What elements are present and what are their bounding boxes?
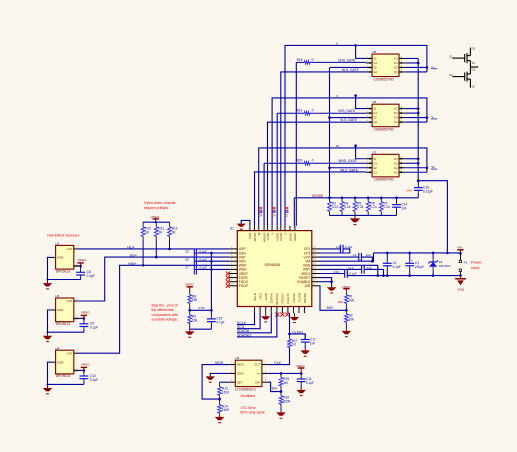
svg-text:MOD: MOD [237, 363, 244, 367]
wire net WLS gate [255, 172, 367, 226]
wire net VCP [320, 256, 359, 258]
wire U5 D2a to phase [405, 66, 427, 68]
svg-text:LOCKn: LOCKn [292, 293, 296, 303]
svg-text:0.1µF: 0.1µF [306, 381, 314, 385]
svg-text:D1: D1 [472, 46, 476, 50]
wire net SENSE rail [294, 197, 418, 199]
resistor R2 [345, 310, 356, 328]
svg-text:GND: GND [458, 287, 466, 291]
wire PAD to ground [241, 220, 250, 226]
svg-text:0.1µF: 0.1µF [90, 326, 98, 330]
resistor R4 [340, 198, 351, 216]
svg-text:S2: S2 [373, 166, 377, 170]
svg-text:0.1µF: 0.1µF [199, 257, 207, 261]
resistor R9 [188, 310, 199, 329]
svg-text:U8: U8 [235, 356, 239, 360]
junction U4 vcc node [83, 369, 86, 372]
svg-text:Power: Power [471, 260, 482, 264]
svg-text:DIR: DIR [327, 306, 334, 310]
power VREG dir divider [342, 285, 351, 291]
junction sense r4 [341, 197, 344, 200]
svg-text:S1: S1 [373, 157, 377, 161]
junction sense r7 [380, 197, 383, 200]
svg-text:0.1µF: 0.1µF [87, 274, 95, 278]
junction sense r3 [328, 197, 331, 200]
svg-text:U5: U5 [373, 50, 377, 54]
svg-text:C3: C3 [353, 253, 357, 257]
junction U4 gnd corner [47, 383, 49, 385]
junction clkin node [288, 333, 291, 336]
U1 right pins CP1..DIR [297, 246, 319, 288]
svg-text:0.24: 0.24 [384, 205, 390, 209]
svg-text:VLSO: VLSO [266, 232, 270, 241]
ground ground U4 [43, 384, 52, 393]
wire net SDATAI [237, 313, 271, 333]
svg-text:CLK: CLK [274, 361, 281, 365]
wire U7 D1b to VM bus [405, 162, 418, 164]
svg-text:DRV5013: DRV5013 [56, 374, 70, 378]
resistor R14 [218, 399, 230, 415]
svg-text:D2: D2 [472, 68, 476, 72]
junction phase U S1 tap [354, 44, 357, 47]
power VREG pullups [151, 215, 160, 222]
junction osc v+ vreg [300, 372, 303, 375]
svg-text:BRAKE: BRAKE [303, 293, 307, 303]
wire net DIV [269, 382, 281, 391]
svg-text:require pullups.: require pullups. [144, 206, 169, 210]
svg-text:C5: C5 [185, 249, 189, 253]
svg-text:0.0: 0.0 [292, 343, 297, 347]
resistor R8 [188, 291, 199, 310]
wire U6 S2 to sense bus [330, 117, 366, 119]
capacitor C7 input filter labels [185, 265, 207, 269]
svg-text:V+: V+ [257, 372, 261, 376]
svg-text:U: U [283, 233, 287, 235]
svg-text:0: 0 [312, 109, 314, 113]
svg-text:HV+: HV+ [130, 254, 137, 258]
svg-text:SDATAI: SDATAI [270, 293, 274, 304]
power VM supply [457, 245, 464, 253]
capacitor C1 [405, 253, 424, 276]
svg-text:CLKIN: CLKIN [297, 293, 301, 302]
power VREG bias [185, 283, 194, 291]
svg-text:Bias the - pins of: Bias the - pins of [152, 304, 178, 308]
svg-text:D2: D2 [394, 120, 398, 124]
wire net VM [320, 253, 374, 261]
svg-text:0: 0 [312, 159, 314, 163]
wire net SCS [237, 313, 260, 329]
svg-text:R18: R18 [297, 58, 303, 62]
hall sensor U4 DRV5013 [49, 346, 79, 378]
wire net VINT [320, 268, 362, 270]
power VREG U4 [81, 363, 91, 371]
ground ground R16 [276, 410, 285, 418]
svg-text:VREG: VREG [81, 311, 90, 315]
junction VSN bias [210, 260, 213, 263]
resistor R5 [353, 198, 364, 216]
svg-text:10K: 10K [349, 298, 356, 302]
wire net CLK [269, 348, 290, 365]
svg-text:FAULTn: FAULTn [286, 293, 290, 304]
svg-text:S2: S2 [373, 66, 377, 70]
junction VM bus U7 [417, 162, 420, 165]
svg-text:Input: Input [471, 266, 480, 270]
svg-text:U: U [336, 42, 338, 46]
wire net CP2 [320, 249, 350, 253]
svg-text:15K: 15K [192, 298, 199, 302]
svg-text:D2: D2 [394, 166, 398, 170]
svg-text:50% duty cycle: 50% duty cycle [240, 411, 265, 415]
svg-text:0: 0 [312, 58, 314, 62]
svg-text:U2: U2 [55, 242, 59, 246]
svg-text:OUT: OUT [66, 299, 72, 303]
svg-text:GND: GND [57, 308, 63, 312]
svg-text:HU+: HU+ [127, 245, 134, 249]
wire bias bus to minus inputs [210, 253, 212, 310]
junction VM rail end [459, 252, 462, 255]
junction S bus W tap [328, 166, 331, 169]
capacitor C11 [297, 373, 314, 388]
resistor R12 [168, 222, 178, 249]
resistor R1 [345, 291, 356, 310]
svg-text:WLS_GATE: WLS_GATE [340, 168, 359, 172]
wire U5 D2b to phase [405, 71, 427, 73]
ground ground U3 [43, 332, 52, 341]
svg-text:0.1µF: 0.1µF [349, 272, 357, 276]
junction sense c14 [395, 197, 398, 200]
svg-text:W: W [257, 232, 261, 235]
wire U5 S1 to phase U [356, 45, 366, 58]
svg-text:S1: S1 [373, 107, 377, 111]
svg-text:SCLK: SCLK [253, 293, 257, 301]
power VREG U2 [77, 258, 87, 266]
wire U4 GND to ground [48, 362, 84, 384]
net label V riser [272, 207, 276, 217]
wire net VSP / HV+ [78, 257, 229, 301]
svg-text:0.1µF: 0.1µF [199, 249, 207, 253]
transistor pair U5 CSD88537ND [366, 50, 406, 81]
junction gnd rail c2 [386, 274, 389, 277]
wire C3 to VM [361, 257, 372, 261]
junction VM bus block3 upper [417, 157, 420, 160]
capacitor C4 charge pump [336, 245, 353, 253]
no-connect U1 left pin 8 [226, 276, 230, 280]
svg-text:4.7µF: 4.7µF [216, 321, 224, 325]
wire bias 2.5V node [190, 309, 212, 311]
ground ground oscillator [206, 376, 215, 382]
transistor Q2 legend lower FET [449, 67, 478, 88]
note frequency [240, 406, 265, 415]
svg-text:U4: U4 [55, 346, 59, 350]
junction R12 to HU+ [168, 248, 171, 251]
wire net WSN [194, 268, 229, 270]
junction VREG stem [155, 221, 157, 223]
junction bias node right [210, 309, 213, 312]
no-connect U1 bottom pin 6 [275, 313, 279, 317]
svg-text:D2: D2 [394, 66, 398, 70]
junction VM bus U6 [417, 112, 420, 115]
resistor R10 [141, 222, 151, 265]
svg-text:VREG: VREG [185, 283, 194, 287]
net label W riser [259, 207, 263, 217]
svg-text:HW+: HW+ [128, 262, 136, 266]
svg-text:Open-drain outputs: Open-drain outputs [144, 201, 176, 205]
svg-text:GND: GND [57, 256, 63, 260]
svg-text:VREG: VREG [342, 285, 351, 289]
wire U5 D1a to VM bus [405, 57, 418, 59]
svg-text:0.1µF: 0.1µF [199, 265, 207, 269]
wire osc gnd pin [210, 373, 228, 376]
wire U6 S1 to phase V [356, 96, 366, 109]
svg-text:DRV5013: DRV5013 [56, 269, 70, 273]
svg-text:D2: D2 [394, 170, 398, 174]
resistor R19 [277, 109, 366, 115]
wire U6 D2a to phase [405, 117, 427, 119]
wire net VSN [194, 260, 229, 262]
wire U7 D1a to VM bus [405, 158, 418, 160]
svg-text:SET: SET [237, 380, 243, 384]
junction phase node U5 [426, 66, 429, 69]
svg-text:CSD88537ND: CSD88537ND [374, 178, 395, 182]
wire net Vplus osc [269, 372, 302, 374]
svg-text:P1: P1 [464, 261, 468, 265]
svg-text:CSD88537ND: CSD88537ND [374, 77, 395, 81]
junction vm rail c2 [386, 252, 389, 255]
note power input [471, 260, 482, 270]
diode D1 TVS [428, 253, 451, 276]
svg-text:C13: C13 [334, 270, 340, 274]
junction U2 gnd corner [47, 279, 49, 281]
svg-text:G1: G1 [373, 111, 377, 115]
wire net MOD [202, 365, 229, 400]
resistor R20 [264, 159, 366, 165]
svg-text:1nF: 1nF [310, 341, 316, 345]
ground ground C17 [301, 349, 310, 357]
svg-text:SM6T33CA: SM6T33CA [439, 265, 451, 268]
ground ground bias divider [185, 329, 194, 337]
wire net VLS gate [268, 122, 367, 226]
svg-text:Hall Effect Sensors: Hall Effect Sensors [47, 234, 79, 238]
junction gnd rail end [459, 274, 462, 277]
wire net SDATAO [237, 313, 277, 337]
svg-text:S1: S1 [373, 57, 377, 61]
svg-text:GND: GND [237, 372, 243, 376]
svg-text:G1: G1 [373, 61, 377, 65]
svg-text:C12: C12 [348, 266, 354, 270]
junction osc v+ r15 [280, 372, 283, 375]
svg-text:0.22µF: 0.22µF [423, 189, 433, 193]
ground ground R14 [215, 415, 224, 422]
net label U riser [285, 207, 289, 217]
resistor R7 [379, 198, 390, 216]
junction vm rail d1 [432, 252, 435, 255]
capacitor C5 input filter [185, 249, 207, 275]
svg-text:15K: 15K [192, 318, 199, 322]
capacitor C8 [76, 266, 95, 280]
svg-text:U3: U3 [55, 294, 59, 298]
junction U3 gnd corner [47, 331, 49, 333]
wire U7 D2b to phase [405, 171, 427, 173]
svg-text:DIR: DIR [305, 284, 311, 288]
capacitor C17 [301, 334, 316, 349]
svg-text:WHS_GATE: WHS_GATE [338, 159, 357, 163]
U1 bottom pins SCLK..BRAKE [253, 292, 307, 313]
wire U6 D2b to phase [405, 121, 427, 123]
wire U5 D1b to VM bus [405, 62, 418, 64]
power VREG oscillator [296, 364, 305, 373]
wire net VREG row [320, 273, 345, 275]
svg-text:R20: R20 [297, 159, 303, 163]
wire net USP / HU+ [78, 248, 229, 250]
svg-text:820K: 820K [283, 399, 291, 403]
junction set divider node [218, 398, 221, 401]
svg-text:G1: G1 [373, 161, 377, 165]
svg-text:DRV5013: DRV5013 [56, 322, 70, 326]
svg-text:S1: S1 [472, 61, 476, 65]
junction VM bus U5 [417, 62, 420, 65]
ground ground U1 brake pin [290, 313, 299, 323]
svg-text:0.24: 0.24 [357, 205, 363, 209]
svg-text:OUT: OUT [254, 363, 260, 367]
note oscillator [240, 394, 256, 398]
svg-text:SENSE: SENSE [312, 194, 324, 198]
junction U2 vcc node [79, 265, 82, 268]
wire net DIR [320, 286, 347, 311]
junction phase node U7 [426, 166, 429, 169]
op-amp U1 DRV8308 motor controller body [230, 227, 312, 307]
svg-text:CSD88537ND: CSD88537ND [374, 127, 395, 131]
resistor R6 [366, 198, 377, 216]
svg-text:U1: U1 [230, 227, 234, 231]
wire U3 VCC to VREG [78, 317, 84, 319]
svg-text:1nF: 1nF [401, 206, 407, 210]
no-connect U1 bottom pin 8 [285, 313, 289, 317]
ground ground reset enable [327, 287, 336, 293]
junction C12 gnd tap [382, 274, 385, 277]
resistor R18 [296, 58, 366, 64]
svg-text:DIV: DIV [255, 380, 260, 384]
svg-text:a middle voltage.: a middle voltage. [152, 317, 178, 321]
ground ground C11 [297, 388, 306, 396]
wire U7 S2 to sense bus [330, 167, 366, 169]
capacitor C16 (DNI) [414, 181, 433, 198]
svg-text:10K: 10K [349, 317, 356, 321]
svg-text:GAIN: GAIN [264, 293, 268, 300]
svg-text:S2: S2 [373, 116, 377, 120]
wire net U phase top [285, 45, 427, 226]
svg-text:VREG: VREG [81, 363, 90, 367]
U1 left pins USP..FGDP [229, 246, 249, 288]
transistor Q1 legend upper FET [449, 46, 476, 67]
svg-text:OUT: OUT [66, 247, 72, 251]
svg-text:C4: C4 [336, 245, 340, 249]
no-connect U1 left pin 9 [226, 280, 230, 284]
svg-text:G2: G2 [373, 170, 377, 174]
wire U2 GND to ground [48, 257, 81, 279]
wire sense source bus [329, 67, 331, 197]
wire VM rail [374, 252, 461, 254]
transistor pair U6 CSD88537ND [366, 100, 406, 131]
svg-text:0.1µF: 0.1µF [90, 378, 98, 382]
svg-text:DIV: DIV [272, 386, 279, 390]
svg-text:the differential: the differential [152, 308, 174, 312]
wire clkin to c17 [290, 334, 306, 340]
wire net USN [194, 252, 229, 254]
svg-text:PAD: PAD [248, 232, 252, 239]
wire C12 to gnd rail [364, 269, 383, 275]
junction gnd rail d1 [432, 274, 435, 277]
wire U7 D2a to phase [405, 167, 427, 169]
junction phase node U6 [426, 116, 429, 119]
note bias comment [152, 304, 179, 322]
ground ground sense resistors [350, 215, 360, 224]
hall sensor U3 DRV5013 [49, 294, 79, 326]
wire net GND row [320, 265, 378, 275]
wire pullup top rail [143, 221, 169, 223]
wire R9 C15 bottom tie [190, 328, 212, 330]
wire net WSP / HW+ [78, 265, 229, 353]
junction C3 VM tap [371, 260, 374, 263]
capacitor C14 [392, 198, 407, 216]
ground ground U2 [43, 280, 52, 289]
svg-text:0.24: 0.24 [370, 205, 376, 209]
wire VM bus [418, 58, 447, 252]
capacitor C10 [80, 370, 99, 384]
ground ground U1 gain pin [261, 313, 270, 322]
no-connect U1 bottom pin 7 [280, 313, 284, 317]
wire power gnd rail [347, 275, 460, 277]
wire net VHS gate riser [276, 113, 278, 226]
svg-text:DRV8308: DRV8308 [265, 263, 281, 267]
resistor R13 [218, 382, 230, 399]
capacitor C3 VCP [353, 253, 371, 261]
svg-text:OUT: OUT [66, 351, 72, 355]
connector P1 power input [459, 253, 467, 275]
svg-text:C6: C6 [185, 257, 189, 261]
junction reset enable tie [330, 280, 333, 283]
svg-text:1M: 1M [283, 381, 288, 385]
svg-text:FGOUT: FGOUT [281, 293, 285, 304]
svg-text:GND: GND [57, 360, 63, 364]
svg-text:D1: D1 [394, 107, 398, 111]
svg-text:UHS_GATE: UHS_GATE [338, 59, 356, 63]
svg-text:220µF: 220µF [415, 265, 424, 269]
svg-text:U6: U6 [373, 100, 377, 104]
wire net WHS gate riser [263, 163, 265, 226]
capacitor C15 [207, 310, 225, 329]
wire U3 GND to ground [48, 310, 84, 332]
junction gnd rail c1 [408, 274, 411, 277]
svg-text:162K: 162K [222, 390, 230, 394]
svg-text:G1: G1 [449, 54, 453, 58]
svg-text:SDATAO: SDATAO [275, 292, 279, 305]
svg-text:D2: D2 [394, 116, 398, 120]
svg-text:VLS_GATE: VLS_GATE [340, 118, 358, 122]
svg-text:D1: D1 [394, 161, 398, 165]
ground ground dir divider [342, 328, 351, 336]
resistor R15 [279, 373, 289, 391]
wire U2 VCC to VREG [78, 265, 81, 267]
ground power ground at U1 PAD [237, 224, 246, 230]
svg-text:DNI: DNI [407, 188, 412, 192]
svg-text:170.7kHz: 170.7kHz [240, 406, 256, 410]
no-connect U1 left pin 10 [226, 284, 230, 288]
ground power input flag [455, 276, 466, 286]
junction R11 to HV+ [155, 256, 158, 259]
svg-text:SENN: SENN [293, 233, 297, 241]
svg-text:D2: D2 [394, 70, 398, 74]
wire U5 S2 to sense bus [330, 66, 366, 68]
